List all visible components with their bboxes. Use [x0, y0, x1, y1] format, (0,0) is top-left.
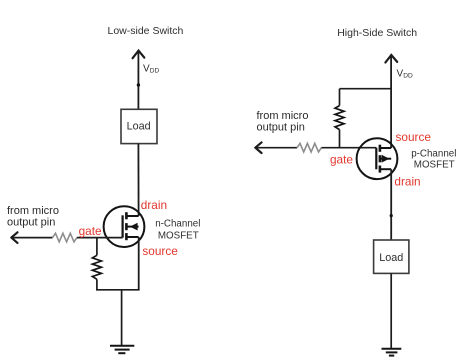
svg-text:High-Side Switch: High-Side Switch — [337, 27, 417, 39]
n-channel MOSFET Q1 — [104, 206, 145, 247]
wire: rail to ground — [121, 290, 123, 346]
svg-text:source: source — [396, 130, 432, 144]
svg-text:source: source — [142, 244, 178, 258]
svg-text:p-Channel: p-Channel — [411, 148, 456, 159]
VDD arrow (low-side) — [133, 51, 145, 59]
svg-text:output pin: output pin — [257, 121, 305, 133]
svg-text:MOSFET: MOSFET — [158, 231, 199, 242]
label: source (high-side) — [396, 130, 432, 144]
wire: VDD down to source bar — [390, 56, 392, 148]
svg-text:gate: gate — [330, 152, 353, 166]
svg-text:Low-side Switch: Low-side Switch — [108, 25, 184, 37]
wire: Load to ground — [390, 273, 392, 348]
label: from micro output pin (low-side) — [7, 205, 59, 229]
wire: branch down to pull-up resistor — [339, 89, 341, 106]
title: Low-side Switch — [108, 25, 184, 37]
wire: VDD to Load — [137, 52, 139, 110]
load box (high-side) — [374, 240, 409, 273]
label: drain (high-side) — [394, 174, 420, 188]
pull-up resistor (high-side) — [335, 106, 344, 130]
svg-text:from micro: from micro — [257, 110, 309, 122]
pull-down resistor (low-side) — [92, 255, 101, 279]
VDD label (low-side) — [143, 64, 160, 75]
series gate resistor (gray, low-side) — [53, 233, 77, 242]
ground (low-side) — [110, 346, 134, 353]
wire: gate node down to pulldown resistor — [96, 238, 98, 256]
svg-text:n-Channel: n-Channel — [155, 218, 200, 229]
svg-text:MOSFET: MOSFET — [414, 160, 455, 171]
title: High-Side Switch — [337, 27, 417, 39]
label: from micro output pin (high-side) — [257, 110, 309, 133]
label: gate (low-side) — [79, 224, 102, 238]
wire: resistor to gate — [77, 237, 123, 239]
label: drain (low-side) — [141, 198, 167, 212]
label: n-Channel MOSFET — [155, 218, 200, 241]
label: gate (high-side) — [330, 152, 353, 166]
svg-text:drain: drain — [141, 198, 167, 212]
svg-text:output pin: output pin — [7, 217, 55, 229]
wire: resistor to gate bar — [321, 147, 376, 149]
p-channel MOSFET Q2 — [357, 138, 398, 179]
VDD arrow (high-side) — [385, 55, 397, 63]
label: source (low-side) — [142, 244, 178, 258]
svg-text:DD: DD — [150, 67, 160, 74]
load box (low-side) — [121, 109, 157, 143]
svg-text:drain: drain — [394, 174, 420, 188]
wire: resistor bottom to source rail — [96, 279, 98, 290]
series gate resistor (gray, high-side) — [297, 143, 321, 152]
junction dot on VDD wire — [137, 83, 140, 86]
svg-text:Load: Load — [127, 120, 151, 132]
wire: drain down to Load — [390, 169, 392, 240]
wire: bottom source rail — [96, 289, 140, 291]
wire: branch to pull-up resistor — [340, 88, 392, 90]
ground (high-side) — [382, 349, 402, 356]
arrow to micro output (high-side) — [255, 142, 297, 153]
label: p-Channel MOSFET — [411, 148, 456, 170]
svg-text:DD: DD — [403, 72, 413, 79]
VDD label (high-side) — [397, 69, 413, 80]
wire: pull-up resistor to gate line — [339, 130, 341, 148]
junction dot on drain wire — [390, 214, 393, 217]
wire: source down to rail — [138, 237, 140, 290]
wire: Load to drain — [137, 144, 139, 216]
arrow to micro output (low-side) — [11, 232, 52, 243]
svg-text:from micro: from micro — [7, 205, 59, 217]
svg-text:gate: gate — [79, 224, 102, 238]
svg-text:Load: Load — [379, 252, 403, 264]
